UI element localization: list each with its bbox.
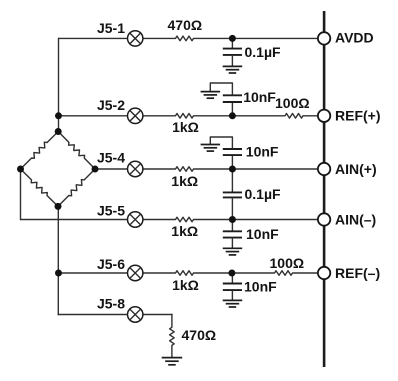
- wire bridge left leg down: [20, 169, 22, 220]
- svg-text:J5-4: J5-4: [97, 149, 125, 165]
- connector J5-2 symbol: [128, 108, 143, 123]
- svg-text:470Ω: 470Ω: [182, 327, 217, 343]
- node dot 1: [229, 35, 236, 42]
- node dot 3: [229, 166, 236, 173]
- ground row5: [223, 300, 243, 307]
- ground below 470 ohm: [162, 358, 183, 365]
- wire left vertical bottom: [57, 206, 59, 315]
- svg-text:1kΩ: 1kΩ: [172, 119, 199, 135]
- svg-text:10nF: 10nF: [246, 144, 279, 160]
- svg-text:J5-8: J5-8: [97, 295, 125, 311]
- svg-text:100Ω: 100Ω: [270, 255, 305, 271]
- svg-text:10nF: 10nF: [246, 226, 279, 242]
- bus terminal circle row3: [318, 163, 330, 175]
- capacitor C 10nF row5: [231, 273, 233, 283]
- ground row3: [201, 145, 221, 152]
- node dot 9: [17, 166, 24, 173]
- svg-text:10nF: 10nF: [243, 89, 276, 105]
- ground row2: [201, 92, 221, 99]
- ground row1: [223, 66, 243, 73]
- node dot 2: [229, 112, 236, 119]
- node dot 8: [55, 128, 62, 135]
- svg-text:AVDD: AVDD: [335, 30, 374, 46]
- svg-text:AIN(–): AIN(–): [335, 211, 376, 227]
- svg-text:J5-1: J5-1: [97, 20, 125, 36]
- svg-text:J5-2: J5-2: [97, 97, 125, 113]
- svg-text:0.1µF: 0.1µF: [245, 186, 282, 202]
- node dot 4: [229, 216, 236, 223]
- resistor R 470 ohm vertical at J5-8: [170, 314, 175, 358]
- resistor bridge bottom-right: [58, 169, 95, 206]
- node dot 7: [55, 270, 62, 277]
- wire row4 J5-5 to AIN(-) with resistor: [21, 217, 319, 222]
- wire row1 J5-1 to AVDD with resistor: [59, 36, 319, 41]
- bus terminal circle row4: [318, 213, 330, 225]
- svg-text:AIN(+): AIN(+): [335, 161, 377, 177]
- capacitor C 10nF row2: [231, 102, 233, 116]
- resistor bridge top-left: [21, 132, 59, 170]
- node dot 10: [92, 166, 99, 173]
- connector J5-6 symbol: [128, 265, 143, 280]
- wire row5 J5-6 to REF(-) with resistors: [59, 271, 275, 276]
- wire bent ground row3: [210, 137, 232, 149]
- bus terminal circle row2: [318, 110, 330, 122]
- node dot 6: [55, 112, 62, 119]
- svg-text:0.1µF: 0.1µF: [245, 44, 282, 60]
- resistor bridge top-right: [58, 132, 95, 170]
- svg-text:REF(+): REF(+): [335, 108, 381, 124]
- connector J5-4 symbol: [128, 161, 143, 176]
- wire row6 J5-8 stub: [58, 314, 173, 316]
- svg-text:REF(–): REF(–): [335, 265, 380, 281]
- wire left vertical top: [58, 38, 60, 132]
- svg-text:1kΩ: 1kΩ: [171, 173, 198, 189]
- capacitor C 0.1uF row1: [231, 38, 233, 48]
- node dot 11: [55, 203, 62, 210]
- wire bent ground row2: [210, 83, 232, 95]
- capacitor C 10nF row3: [231, 155, 233, 169]
- bus terminal circle row1: [318, 32, 330, 44]
- svg-text:10nF: 10nF: [244, 279, 277, 295]
- wire row3 J5-4 to AIN(+) with resistor: [95, 167, 318, 172]
- svg-text:J5-6: J5-6: [97, 256, 125, 272]
- connector J5-5 symbol: [128, 212, 143, 227]
- svg-text:470Ω: 470Ω: [168, 17, 203, 33]
- bus terminal circle row5: [318, 267, 330, 279]
- svg-text:J5-5: J5-5: [97, 202, 125, 218]
- ground row4: [223, 248, 243, 255]
- wire row2 J5-2 to REF(+) with resistors: [59, 114, 285, 119]
- connector J5-8 symbol: [128, 307, 143, 322]
- node dot 5: [228, 270, 235, 277]
- capacitor C 0.1uF between AIN(+) and AIN(-): [231, 169, 233, 192]
- bus vertical line: [323, 11, 326, 367]
- capacitor C 10nF row4: [231, 220, 233, 232]
- svg-text:100Ω: 100Ω: [275, 95, 310, 111]
- connector J5-1 symbol: [128, 31, 143, 46]
- svg-text:1kΩ: 1kΩ: [172, 277, 199, 293]
- svg-text:1kΩ: 1kΩ: [171, 223, 198, 239]
- resistor bridge bottom-left: [21, 169, 59, 206]
